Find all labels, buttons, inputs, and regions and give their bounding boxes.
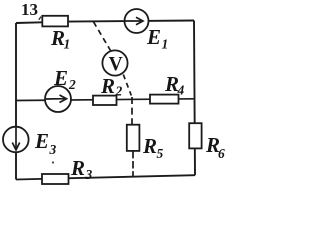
- wire bottom: [16, 175, 195, 179]
- svg-text:R: R: [100, 74, 115, 98]
- svg-text:E: E: [146, 25, 161, 49]
- svg-text:E: E: [53, 66, 68, 90]
- svg-text:1: 1: [64, 37, 71, 52]
- svg-text:R: R: [142, 134, 157, 158]
- dashed lead lower: [123, 75, 131, 96]
- resistor R3: [42, 174, 69, 184]
- svg-text:5: 5: [157, 146, 164, 161]
- speck: [52, 161, 54, 163]
- source E3: [3, 127, 29, 153]
- svg-text:4: 4: [177, 83, 185, 98]
- wire top: [16, 21, 194, 24]
- svg-text:3: 3: [85, 167, 93, 182]
- resistor R6: [189, 123, 201, 148]
- wire middle: [16, 99, 194, 101]
- source E2: [45, 86, 71, 112]
- svg-text:6: 6: [218, 146, 225, 161]
- source E1: [125, 9, 149, 33]
- svg-text:2: 2: [115, 84, 123, 99]
- svg-text:V: V: [109, 54, 123, 75]
- voltmeter V: [102, 50, 127, 75]
- svg-text:E: E: [34, 129, 49, 153]
- dashed lead upper: [94, 22, 111, 51]
- resistor R1: [42, 16, 68, 27]
- wire left: [15, 23, 17, 180]
- wire R5 bottom: [132, 151, 134, 177]
- stray mark: [39, 17, 41, 20]
- svg-text:13: 13: [21, 0, 38, 19]
- svg-text:2: 2: [68, 77, 76, 92]
- resistor R2: [93, 96, 117, 105]
- resistor R4: [150, 95, 179, 104]
- svg-text:1: 1: [162, 37, 169, 52]
- resistor R5: [127, 125, 140, 151]
- svg-text:3: 3: [49, 142, 57, 157]
- svg-text:R: R: [70, 156, 85, 180]
- wire right: [194, 21, 195, 176]
- dashed tap to R5: [131, 97, 133, 125]
